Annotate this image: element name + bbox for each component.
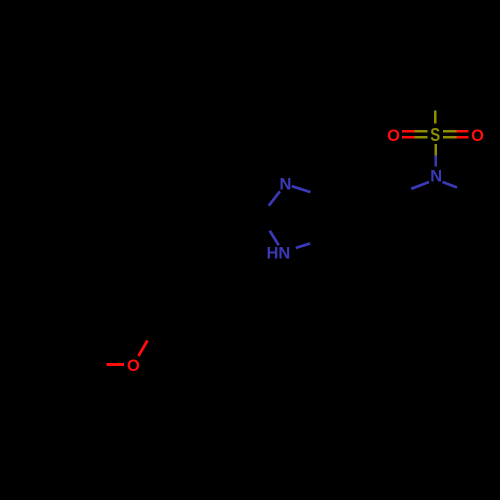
bond N1-C7a, N half (right from HN)	[296, 243, 310, 248]
bond S=O left, lower line, O half	[402, 136, 415, 139]
bond N3-C3a, N half (right from benzimidazole N)	[292, 186, 311, 192]
svg-text:S: S	[430, 125, 440, 146]
bond N1-C2, N half (up-left from HN)	[270, 231, 279, 245]
bond N3-C2, N half (down-left from benzimidazole N)	[269, 191, 280, 205]
bond S-CH3 (visible S half above S)	[434, 111, 437, 124]
bond O-C aryl, O half (up-right from ether O)	[138, 341, 147, 356]
svg-text:O: O	[471, 127, 484, 145]
bond S-N, N half	[434, 156, 437, 167]
bond S=O right, lower line, S half	[443, 136, 456, 139]
atom S	[430, 125, 440, 146]
bond S=O left, upper line, S half	[415, 130, 428, 133]
bond N-C ring, N half (down-left from sulfonamide N)	[411, 182, 429, 189]
svg-text:HN: HN	[266, 245, 290, 263]
bond O-CH2 propoxy, O half (left of ether O)	[106, 363, 124, 366]
bond S=O right, lower line, O half	[456, 136, 468, 139]
bond S-N, S half	[434, 144, 437, 156]
bond S=O right, upper line, S half	[443, 130, 456, 133]
bond S=O left, lower line, S half	[415, 136, 428, 139]
bond S=O right, upper line, O half	[456, 130, 468, 133]
bond N-CH3, N half (down-right from sulfonamide N)	[443, 182, 457, 188]
svg-text:O: O	[127, 357, 140, 375]
svg-text:O: O	[387, 127, 400, 145]
bond S=O left, upper line, O half	[402, 130, 415, 133]
svg-text:N: N	[430, 168, 442, 186]
svg-text:N: N	[279, 176, 291, 194]
